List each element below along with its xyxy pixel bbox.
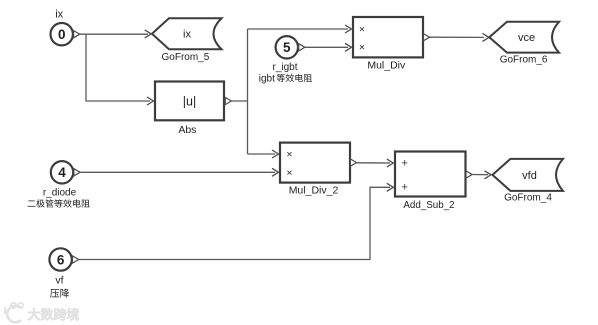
inport In5 "r_igbt" — [276, 36, 305, 58]
block Mul_Div — [353, 17, 430, 71]
svg-text:ix: ix — [183, 29, 191, 41]
svg-text:0: 0 — [58, 27, 66, 42]
label vf — [50, 275, 69, 298]
svg-text:ix: ix — [55, 9, 63, 21]
svg-text:Abs: Abs — [178, 124, 196, 136]
wire inport5 to Mul_Div input 2 — [305, 43, 352, 51]
watermark logo icon — [5, 303, 23, 322]
svg-text:×: × — [286, 149, 292, 161]
svg-text:vce: vce — [518, 32, 535, 44]
svg-text:+: + — [401, 182, 407, 194]
svg-text:×: × — [286, 167, 292, 179]
svg-text:|u|: |u| — [183, 95, 196, 109]
svg-text:GoFrom_6: GoFrom_6 — [500, 55, 548, 66]
svg-text:4: 4 — [58, 165, 66, 180]
svg-text:Add_Sub_2: Add_Sub_2 — [403, 200, 454, 211]
svg-text:Mul_Div: Mul_Div — [367, 59, 406, 71]
wire Mul_Div_2 to Add_Sub_2 input 1 — [357, 159, 394, 167]
svg-text:vf: vf — [55, 275, 63, 287]
wire Abs output to vertical bus — [231, 100, 247, 102]
svg-text:Mul_Div_2: Mul_Div_2 — [289, 185, 339, 197]
svg-text:×: × — [359, 42, 365, 54]
label r_igbt — [259, 62, 312, 85]
inport In4 "r_diode" — [51, 161, 80, 183]
block Add_Sub_2 — [395, 152, 472, 212]
wire bus to Mul_Div_2 input 1 — [248, 150, 279, 158]
svg-text:6: 6 — [57, 252, 65, 267]
wire vertical bus x=248 — [247, 29, 249, 154]
wire branch inport0 down to Abs — [86, 34, 154, 105]
goto tag GoFrom_5 "ix" — [152, 18, 222, 63]
block Abs |u| — [155, 82, 231, 137]
wire inport0 to GoFrom_5 — [80, 30, 151, 38]
svg-text:+: + — [401, 158, 407, 170]
wire Add_Sub_2 to GoFrom_4 — [472, 171, 491, 179]
wire Mul_Div to GoFrom_6 — [430, 33, 489, 41]
svg-text:r_igbt: r_igbt — [272, 62, 297, 73]
watermark text — [28, 308, 79, 320]
inport In6 "vf" — [49, 248, 78, 270]
svg-text:vfd: vfd — [522, 170, 537, 182]
svg-text:igbt: igbt — [259, 73, 275, 84]
goto tag GoFrom_4 "vfd" — [493, 159, 564, 204]
svg-text:r_diode: r_diode — [43, 187, 77, 198]
inport In0 "ix" — [51, 9, 80, 46]
wire bus to Mul_Div input 1 — [248, 25, 352, 33]
label r_diode — [28, 187, 90, 207]
svg-text:GoFrom_4: GoFrom_4 — [504, 193, 552, 204]
svg-text:5: 5 — [283, 40, 291, 55]
svg-text:×: × — [359, 24, 365, 36]
block Mul_Div_2 — [280, 143, 357, 197]
goto tag GoFrom_6 "vce" — [489, 22, 559, 66]
svg-text:GoFrom_5: GoFrom_5 — [162, 52, 210, 63]
wire inport4 to Mul_Div_2 input 2 — [80, 168, 278, 176]
wire inport6 to Add_Sub_2 input 2 — [79, 183, 394, 259]
